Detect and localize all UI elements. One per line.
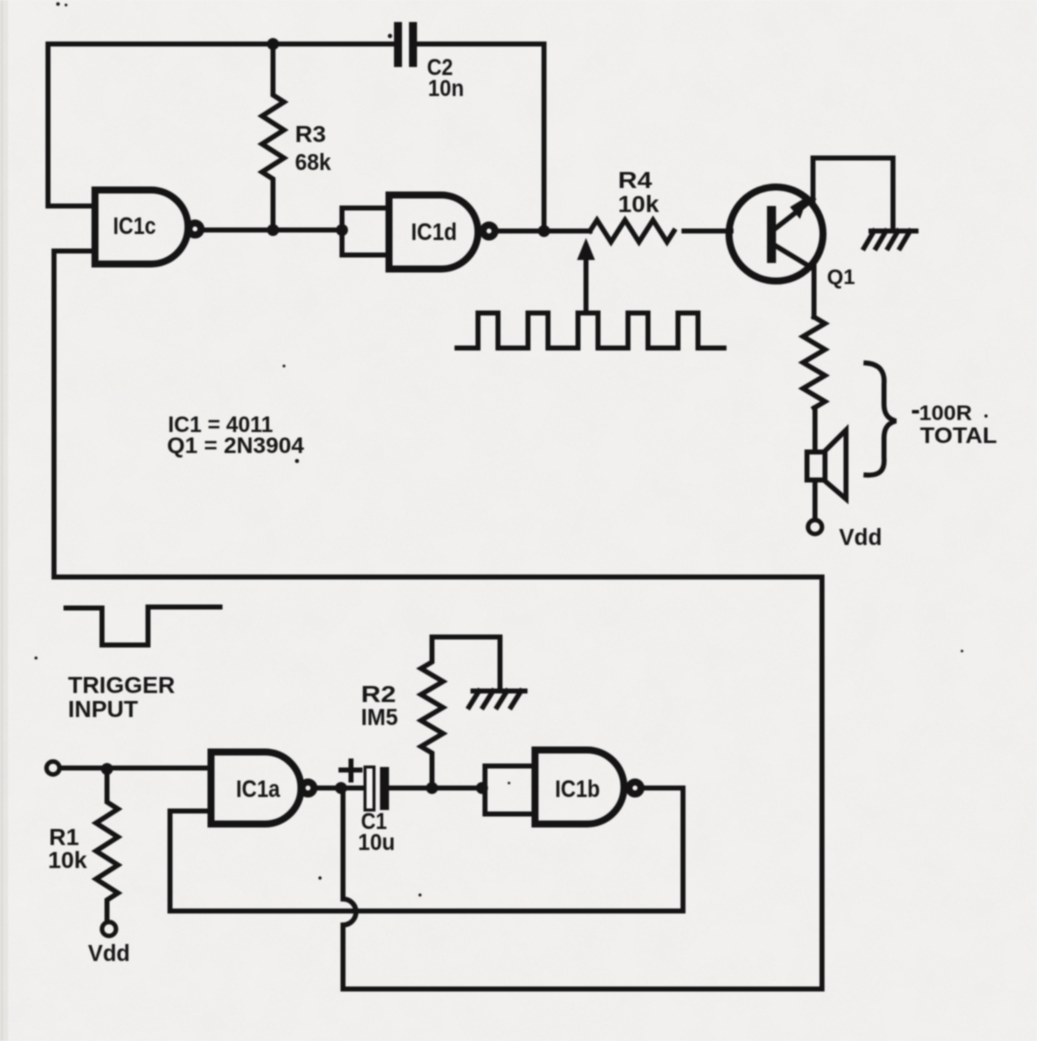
wire speaker to Vdd terminal xyxy=(813,480,818,519)
svg-text:TOTAL: TOTAL xyxy=(920,423,997,448)
svg-text:Q1 = 2N3904: Q1 = 2N3904 xyxy=(167,433,305,458)
svg-text:Vdd: Vdd xyxy=(839,524,882,550)
svg-text:TRIGGER: TRIGGER xyxy=(68,672,175,698)
wire top rail right xyxy=(417,44,544,231)
gate IC1a xyxy=(211,752,314,824)
scan specks xyxy=(35,2,988,896)
terminal Vdd speaker xyxy=(808,520,882,550)
svg-text:Q1: Q1 xyxy=(827,266,855,289)
wire trigger to IC1a xyxy=(60,766,211,771)
node R3 bottom xyxy=(267,224,279,236)
wire R4 to Q1 base xyxy=(684,229,731,234)
speaker LS1 xyxy=(807,430,846,499)
svg-text:10k: 10k xyxy=(618,191,659,217)
gate IC1d xyxy=(342,195,495,269)
resistor R1 xyxy=(48,769,118,919)
resistor R2 xyxy=(361,637,443,788)
text TRIGGER INPUT xyxy=(68,672,175,722)
wire C1 to IC1b xyxy=(389,786,485,791)
arrow waveform pointer xyxy=(577,238,595,313)
capacitor C2 xyxy=(394,22,464,101)
wire IC1b output feedback xyxy=(170,788,683,911)
wire IC1c output xyxy=(202,228,342,233)
svg-text:68k: 68k xyxy=(295,149,331,175)
terminal Vdd R1 xyxy=(88,922,130,966)
svg-text:IC1c: IC1c xyxy=(113,213,156,240)
node R3 top xyxy=(267,38,279,50)
text IC1 Q1 equivalences xyxy=(167,412,305,458)
node R2 bottom xyxy=(426,782,438,794)
wire IC1c lower input long feedback xyxy=(54,251,822,989)
node IC1a output junction xyxy=(335,782,347,794)
resistor speaker series xyxy=(803,317,825,408)
waveform oscillator output xyxy=(457,313,724,348)
gate IC1b xyxy=(485,750,641,824)
node IC1d input xyxy=(336,224,348,236)
svg-text:IC1a: IC1a xyxy=(236,776,281,803)
wire IC1c top input feedback xyxy=(48,44,95,206)
wire IC1a output xyxy=(315,786,365,791)
node R1 tap xyxy=(101,763,113,775)
svg-text:IC1d: IC1d xyxy=(411,219,457,246)
node IC1b input xyxy=(476,782,488,794)
svg-text:INPUT: INPUT xyxy=(68,696,138,722)
node C2-IC1d output junction xyxy=(538,225,550,237)
wire Q1 emitter to ground xyxy=(813,158,893,228)
capacitor C1 xyxy=(341,761,395,855)
wire IC1d output xyxy=(496,229,590,234)
wire IC1a output down with hop xyxy=(343,788,356,989)
ground near R2 xyxy=(469,691,525,707)
resistor R3 xyxy=(262,44,331,230)
wire resistor to speaker xyxy=(813,408,818,452)
svg-text:10n: 10n xyxy=(428,75,464,101)
wire R2 to ground xyxy=(432,637,500,689)
svg-text:IM5: IM5 xyxy=(361,704,398,730)
svg-text:Vdd: Vdd xyxy=(88,940,130,966)
svg-text:10u: 10u xyxy=(358,829,395,855)
svg-text:100R: 100R xyxy=(919,402,972,425)
terminal trigger input xyxy=(47,762,60,775)
svg-text:R3: R3 xyxy=(295,121,326,147)
ground near Q1 xyxy=(864,231,916,248)
wire top rail left xyxy=(48,42,394,47)
brace 100R total xyxy=(866,363,997,475)
waveform trigger pulse xyxy=(66,607,220,645)
transistor Q1 xyxy=(729,187,855,289)
wire Q1 collector down xyxy=(812,267,817,317)
svg-text:R4: R4 xyxy=(618,167,652,193)
svg-text:IC1b: IC1b xyxy=(555,776,600,803)
svg-text:10k: 10k xyxy=(48,847,87,873)
resistor R4 xyxy=(590,167,674,242)
gate IC1c xyxy=(95,190,201,264)
